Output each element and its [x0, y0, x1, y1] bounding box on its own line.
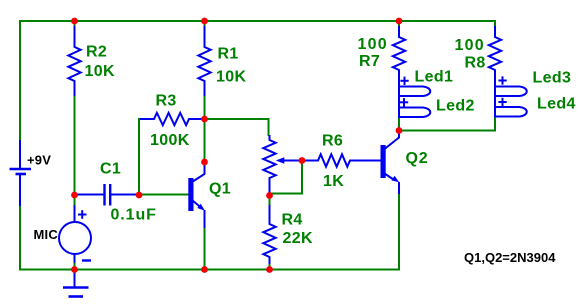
LED Led4	[495, 107, 527, 117]
wire node to Q1 collector	[204, 119, 206, 162]
wire Q1 emitter to rail	[204, 227, 206, 270]
resistor R7	[393, 26, 405, 118]
battery B1 +9V	[19, 140, 21, 169]
wire Q1 base	[138, 194, 189, 196]
junction node C1 left	[71, 192, 78, 199]
svg-text:Q1: Q1	[209, 181, 231, 198]
wire mic top stub	[74, 195, 76, 206]
junction node wiper/R6	[299, 157, 306, 164]
svg-text:R8: R8	[465, 55, 486, 72]
resistor R1	[198, 26, 210, 96]
potentiometer	[263, 135, 275, 196]
Led1 plus sign	[400, 80, 408, 82]
wire wiper feedback	[270, 161, 303, 197]
wire R2 top stub	[74, 21, 76, 28]
LED Led1	[399, 87, 430, 97]
wire led bottom right drop	[494, 116, 496, 132]
mic plus sign	[78, 214, 87, 216]
pot wiper arrow	[283, 160, 302, 162]
wire Q2 emitter to rail	[398, 193, 400, 270]
Led4 plus sign	[498, 101, 506, 103]
svg-text:C1: C1	[100, 161, 121, 178]
svg-text:10K: 10K	[216, 69, 246, 86]
svg-text:Led1: Led1	[415, 69, 454, 86]
LED Led2	[399, 108, 430, 118]
capacitor C1	[76, 194, 104, 196]
svg-text:Q1,Q2=2N3904: Q1,Q2=2N3904	[464, 250, 556, 265]
junction node top-R2	[71, 18, 78, 25]
junction node Q1 collector	[201, 159, 208, 166]
svg-text:Led2: Led2	[436, 98, 475, 115]
svg-text:100K: 100K	[150, 132, 190, 149]
wire top rail	[19, 20, 496, 22]
svg-text:22K: 22K	[283, 230, 313, 247]
wire node to pot horizontal	[205, 118, 270, 120]
junction node top-R7	[396, 18, 403, 25]
svg-text:R2: R2	[86, 44, 107, 61]
wire bottom rail	[19, 269, 400, 271]
microphone MIC	[59, 222, 91, 254]
junction node Q2 collector / LEDs	[396, 127, 403, 134]
svg-text:MIC: MIC	[34, 227, 59, 242]
junction node C1 right / Q1 base	[136, 192, 143, 199]
junction node bottom-Q1	[201, 266, 208, 273]
wire pot top drop	[268, 118, 270, 136]
svg-text:100: 100	[358, 36, 388, 53]
svg-text:Led4: Led4	[537, 96, 576, 113]
svg-text:Led3: Led3	[533, 70, 572, 87]
wire R8 branch corner	[494, 20, 496, 28]
resistor R8	[489, 26, 501, 117]
resistor R3	[140, 113, 204, 125]
wire led bottom horizontal	[399, 130, 495, 132]
svg-text:10K: 10K	[85, 63, 115, 80]
wire R4 bottom stub	[269, 263, 271, 270]
svg-text:R6: R6	[322, 133, 343, 150]
mic minus sign	[82, 259, 91, 261]
wire led bottom left drop	[398, 117, 400, 131]
svg-text:Q2: Q2	[406, 150, 429, 167]
Led3 plus sign	[498, 80, 506, 82]
wire left rail lower	[19, 205, 21, 271]
svg-text:R4: R4	[282, 212, 303, 229]
LED Led3	[495, 87, 527, 97]
wire R4 top stub	[269, 195, 271, 206]
junction node top-R1	[201, 18, 208, 25]
svg-text:0.1uF: 0.1uF	[111, 207, 157, 224]
wire R2 bottom to node	[74, 95, 76, 196]
wire R7 top stub	[398, 21, 400, 28]
resistor R4	[263, 205, 275, 264]
resistor R6	[302, 154, 381, 166]
wire R1 bottom to node	[204, 95, 206, 120]
svg-text:+9V: +9V	[27, 153, 51, 168]
ground	[74, 270, 76, 288]
junction node pot bottom/R4	[266, 192, 273, 199]
svg-text:R1: R1	[218, 46, 239, 63]
junction node bottom-mic	[71, 266, 78, 273]
transistor Q1	[188, 178, 193, 211]
svg-text:R7: R7	[359, 53, 380, 70]
transistor Q2	[381, 145, 386, 178]
Led2 plus sign	[400, 101, 408, 103]
wire mic bottom stub	[74, 262, 76, 270]
svg-text:1K: 1K	[323, 173, 344, 190]
resistor R2	[68, 26, 80, 96]
svg-text:100: 100	[455, 37, 485, 54]
junction node R1/R3	[201, 116, 208, 123]
junction node bottom-R4	[266, 266, 273, 273]
wire R3 left drop	[138, 118, 140, 196]
svg-text:R3: R3	[156, 93, 177, 110]
wire left rail upper	[19, 20, 21, 141]
wire R1 top stub	[204, 21, 206, 28]
